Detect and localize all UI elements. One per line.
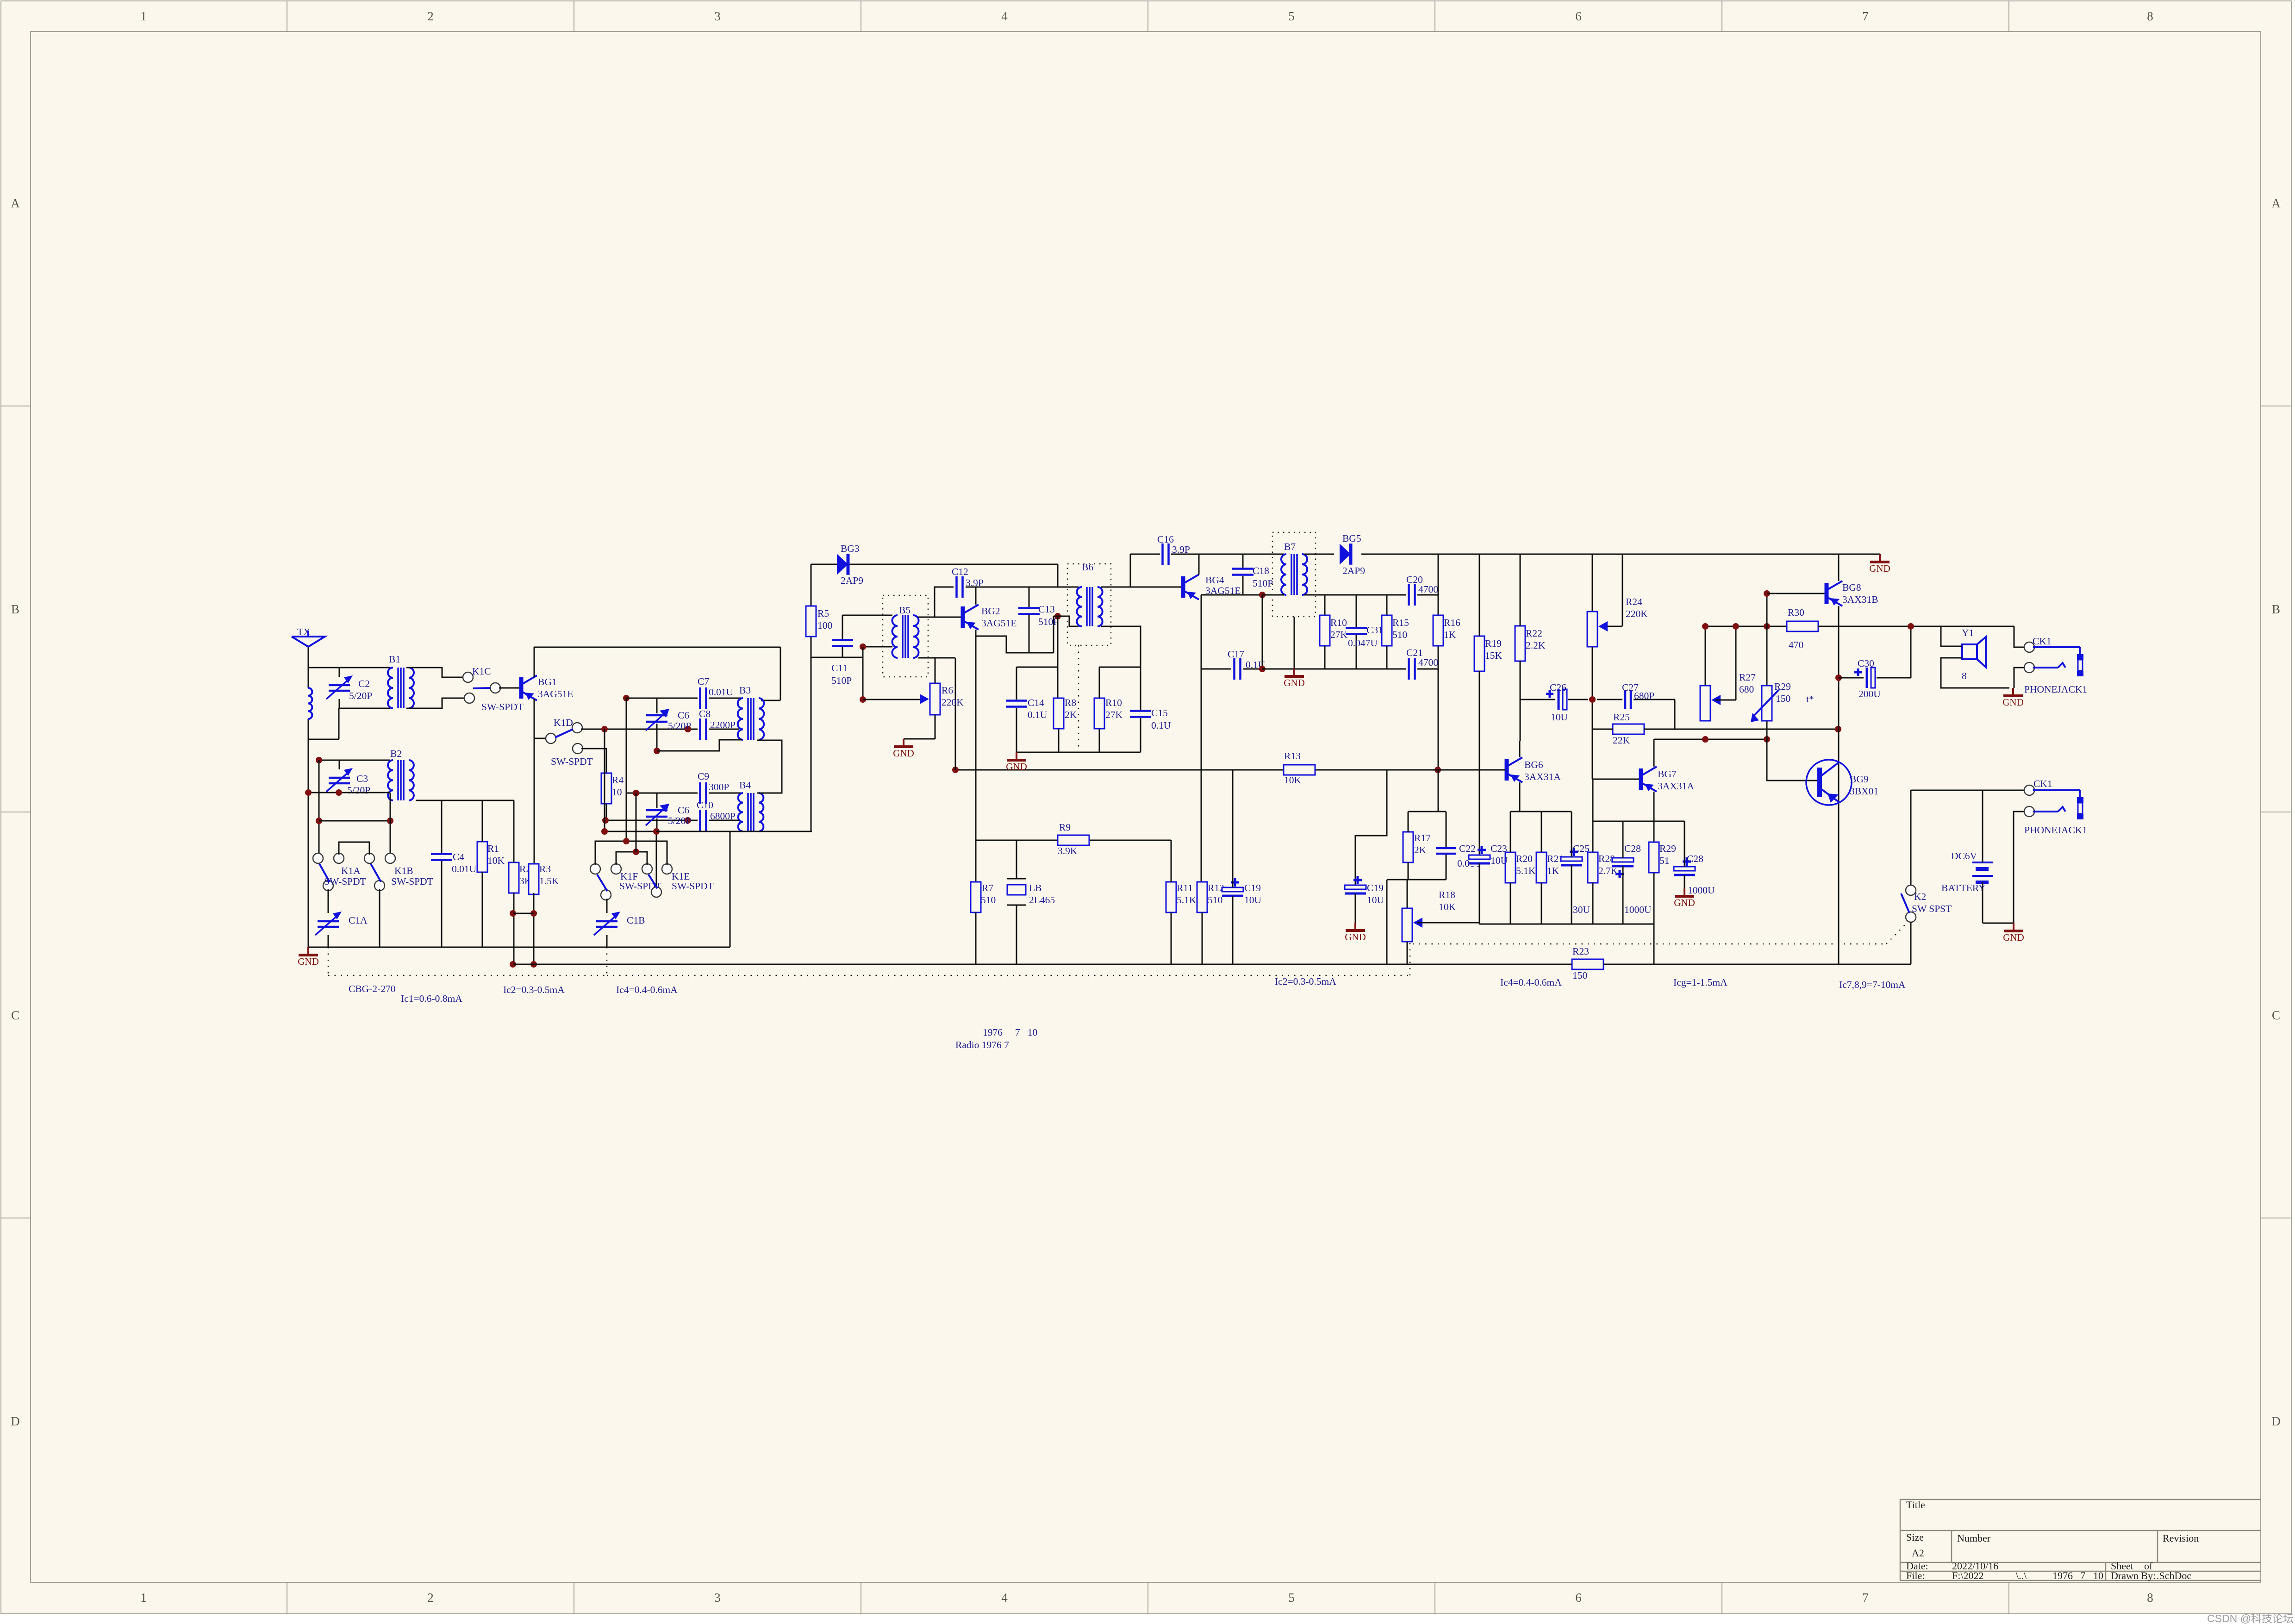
svg-text:Icg=1-1.5mA: Icg=1-1.5mA — [1673, 977, 1727, 988]
wire x1374 drop — [636, 793, 637, 852]
svg-text:BG6: BG6 — [1524, 759, 1543, 770]
capacitor C1A — [315, 889, 368, 947]
wire K2 col bottom — [1910, 922, 1912, 964]
ground C31 row — [1284, 668, 1305, 688]
wire C13 right riser — [1053, 616, 1054, 653]
svg-text:3.9P: 3.9P — [1172, 544, 1190, 555]
node y1796 — [653, 828, 660, 835]
wire BG1 emitter — [534, 699, 535, 864]
svg-text:C26: C26 — [1550, 682, 1566, 693]
node B4 row x1374 — [633, 790, 639, 796]
diode BG3 — [837, 543, 863, 586]
wire B4 top row — [626, 793, 698, 794]
wire B2 top row — [319, 760, 390, 761]
switch K2 — [1901, 885, 1952, 922]
switch K1F — [590, 864, 661, 900]
node y1575 b — [685, 726, 691, 732]
svg-text:Title: Title — [1906, 1499, 1925, 1511]
wire ground rail 2 left — [513, 964, 1180, 965]
wire R24 bottom — [1592, 647, 1593, 779]
svg-text:BG9: BG9 — [1850, 774, 1869, 785]
capacitor C4 — [431, 800, 477, 947]
resistor R1 — [477, 800, 505, 947]
svg-text:Ic2=0.3-0.5mA: Ic2=0.3-0.5mA — [503, 984, 565, 995]
svg-text:GND: GND — [893, 748, 914, 759]
svg-text:R23: R23 — [1572, 946, 1589, 957]
wire rail3 drop — [1653, 924, 1655, 964]
svg-text:PHONEJACK1: PHONEJACK1 — [2024, 684, 2087, 695]
wire R5 column — [811, 564, 812, 831]
svg-text:1000U: 1000U — [1688, 885, 1715, 896]
wire R6 gnd — [904, 738, 935, 740]
node C17 out — [1259, 666, 1266, 672]
resistor R25 — [1592, 712, 1838, 746]
capacitor C28b — [1674, 821, 1715, 896]
capacitor C1B — [594, 899, 645, 947]
svg-text:CBG-2-270: CBG-2-270 — [349, 983, 396, 994]
svg-text:1: 1 — [140, 1591, 147, 1605]
resistor R22 — [1515, 554, 1546, 741]
svg-text:R13: R13 — [1284, 750, 1301, 762]
svg-text:C: C — [11, 1008, 19, 1022]
ground speaker — [2002, 688, 2024, 708]
wire C16 to B7 — [1171, 554, 1284, 555]
node R29a bot — [1764, 736, 1770, 743]
wire B2 left bot to K1B — [390, 800, 391, 858]
wire BG6 base — [1438, 769, 1505, 771]
wire B4 sec bot out — [757, 831, 811, 832]
node BG8 base node — [1764, 590, 1770, 597]
wire B2 sec bottom out — [416, 800, 514, 801]
wire BG8 emitter col — [1838, 606, 1840, 964]
svg-text:2AP9: 2AP9 — [841, 575, 863, 586]
svg-text:C1B: C1B — [627, 915, 645, 926]
svg-text:1976: 1976 — [2052, 1570, 2073, 1581]
svg-text:C30: C30 — [1858, 658, 1874, 669]
svg-text:4700: 4700 — [1418, 584, 1438, 595]
wire B2 bottom row — [308, 793, 390, 800]
svg-text:10U: 10U — [1551, 712, 1568, 723]
svg-text:C4: C4 — [453, 851, 464, 862]
svg-text:Ic1=0.6-0.8mA: Ic1=0.6-0.8mA — [401, 993, 462, 1004]
caption date — [983, 1027, 1037, 1038]
svg-text:C6: C6 — [678, 710, 689, 721]
svg-text:C12: C12 — [952, 566, 968, 577]
wire x1306 drop — [605, 729, 656, 831]
wire BG2 base — [935, 617, 961, 618]
svg-text:3AX31B: 3AX31B — [1842, 594, 1878, 605]
wire C12 left riser — [935, 587, 954, 617]
svg-text:R20: R20 — [1516, 853, 1533, 864]
wire rail3 — [1479, 924, 1654, 925]
resistor R17 — [1403, 812, 1431, 880]
svg-text:BG7: BG7 — [1658, 768, 1677, 780]
wire B7 top right to BG5 — [1304, 554, 1334, 555]
wire C11 top row — [842, 615, 892, 616]
wire K1D low contact row — [581, 749, 606, 773]
resistor R20 — [1505, 812, 1536, 924]
wire BG6 collector — [1520, 741, 1520, 757]
svg-text:C8: C8 — [699, 708, 711, 719]
diode BG5 — [1340, 533, 1365, 576]
node R3 rail — [530, 961, 537, 968]
jack CK1a — [2024, 636, 2087, 695]
wire BG5 out — [1361, 554, 1880, 555]
node R2 tap — [510, 910, 516, 917]
wire K1EF outer bridge — [595, 841, 667, 865]
svg-text:SW-SPDT: SW-SPDT — [551, 756, 593, 767]
svg-text:GND: GND — [298, 956, 319, 967]
svg-text:220K: 220K — [1626, 608, 1648, 619]
resistor R9 — [1058, 822, 1089, 856]
svg-text:D: D — [11, 1414, 20, 1428]
node C30 right — [1908, 623, 1914, 630]
wire BG7 emitter — [1653, 792, 1655, 842]
jack CK1b — [2024, 778, 2087, 836]
svg-text:File:: File: — [1906, 1570, 1925, 1581]
antenna coil L1 — [308, 688, 312, 719]
capacitor C9 — [698, 771, 742, 804]
capacitor C16 — [1157, 534, 1190, 565]
wire CK1b lower col — [2014, 812, 2026, 923]
wire BG8 base — [1767, 593, 1825, 594]
wire battery bottom — [1983, 923, 2014, 924]
switch K1C — [463, 666, 524, 712]
resistor R29a therm — [1751, 681, 1814, 722]
capacitor C15 — [1130, 667, 1171, 752]
wire B5 left bottom — [863, 646, 892, 648]
svg-text:SW-SPDT: SW-SPDT — [481, 701, 524, 712]
wire B6 right bottom out — [1101, 626, 1141, 667]
wire rail to B3 — [761, 647, 780, 700]
wire R24 risers — [1592, 554, 1622, 626]
transformer B3 — [738, 685, 764, 740]
svg-text:0.01U: 0.01U — [709, 687, 734, 698]
svg-text:5: 5 — [1288, 1591, 1295, 1605]
resistor R29b — [1648, 842, 1676, 924]
svg-text:BG2: BG2 — [981, 606, 1000, 617]
svg-text:GND: GND — [2002, 697, 2024, 708]
svg-text:C15: C15 — [1151, 707, 1168, 718]
wire R9 row — [976, 840, 1171, 841]
switch K1D — [546, 717, 593, 767]
wire BG8 collector — [1838, 554, 1840, 581]
svg-text:1.5K: 1.5K — [539, 875, 559, 887]
wire speaker row — [1818, 626, 2014, 627]
svg-text:10U: 10U — [1367, 894, 1384, 906]
node B5 wiper — [860, 696, 866, 703]
wire BG1 collector — [534, 647, 535, 677]
svg-text:3AX31A: 3AX31A — [1524, 771, 1561, 782]
wire antenna vertical — [308, 647, 309, 947]
node C3 y1712 — [336, 789, 342, 796]
svg-text:0.047U: 0.047U — [1348, 637, 1378, 649]
svg-text:8: 8 — [1962, 670, 1967, 681]
svg-text:R1: R1 — [487, 843, 499, 854]
resistor R6 pot — [920, 658, 964, 739]
svg-text:15K: 15K — [1485, 650, 1503, 661]
svg-text:CSDN @科技论坛: CSDN @科技论坛 — [2207, 1612, 2294, 1624]
label Ic2 left — [503, 984, 565, 995]
antenna TX — [292, 626, 325, 647]
svg-text:B: B — [2272, 602, 2280, 616]
wire nodeA down — [626, 698, 627, 841]
wire B7 gnd stub — [1294, 617, 1295, 668]
svg-text:K2: K2 — [1914, 891, 1926, 902]
svg-text:D: D — [2271, 1414, 2281, 1428]
svg-text:7: 7 — [2080, 1570, 2085, 1581]
svg-text:Drawn By:: Drawn By: — [2111, 1570, 2156, 1581]
wire B1 sec bot to K1C — [406, 698, 464, 708]
svg-text:R22: R22 — [1526, 628, 1542, 639]
label Icg — [1673, 977, 1727, 988]
resistor R5 — [805, 606, 832, 637]
transistor BG4 — [1183, 575, 1241, 600]
wire C16 row — [1130, 554, 1160, 555]
svg-text:0.1U: 0.1U — [1151, 720, 1171, 731]
svg-text:R18: R18 — [1439, 889, 1455, 900]
wire R27 col — [1705, 626, 1706, 686]
svg-text:C: C — [2272, 1008, 2280, 1022]
svg-text:8: 8 — [2147, 9, 2153, 23]
wire to BG9 base — [1767, 739, 1818, 781]
transformer B6 — [1077, 587, 1102, 626]
wire to B6 left bottom — [1054, 616, 1079, 626]
capacitor C31 — [1346, 595, 1383, 669]
svg-text:C6: C6 — [678, 805, 689, 816]
svg-text:510: 510 — [1392, 629, 1407, 640]
svg-text:5.1K: 5.1K — [1516, 865, 1536, 876]
capacitor C19b — [1345, 876, 1384, 923]
resistor R15 — [1381, 595, 1409, 669]
svg-text:R27: R27 — [1739, 672, 1756, 683]
svg-text:B2: B2 — [390, 748, 402, 759]
transformer B4 — [738, 780, 764, 831]
svg-text:0.01U: 0.01U — [452, 863, 477, 874]
svg-text:Size: Size — [1906, 1531, 1924, 1543]
dotted box B5 — [883, 595, 928, 677]
capacitor C13 — [1018, 587, 1059, 653]
capacitor C19a — [1222, 770, 1262, 964]
capacitor C6b — [646, 793, 691, 831]
svg-text:4: 4 — [1001, 9, 1008, 23]
svg-text:SW-SPDT: SW-SPDT — [391, 876, 433, 887]
svg-text:C28: C28 — [1624, 843, 1641, 854]
node x843 y1773 — [387, 818, 393, 824]
wire B5 right top — [918, 617, 935, 618]
svg-text:R19: R19 — [1485, 638, 1502, 649]
label Ic789 — [1839, 979, 1906, 990]
svg-text:3: 3 — [714, 1591, 721, 1605]
capacitor C8 — [699, 708, 739, 740]
svg-text:220K: 220K — [942, 697, 964, 708]
svg-text:C25: C25 — [1573, 843, 1590, 854]
svg-text:R24: R24 — [1626, 596, 1642, 607]
wire B3 tap step — [657, 740, 742, 751]
capacitor C26 — [1520, 682, 1588, 723]
svg-text:Ic4=0.4-0.6mA: Ic4=0.4-0.6mA — [616, 984, 678, 995]
svg-text:SW-SPDT: SW-SPDT — [324, 876, 366, 887]
svg-text:Y1: Y1 — [1962, 627, 1974, 638]
wire K1A-K1B bridge — [339, 842, 369, 855]
svg-text:4700: 4700 — [1418, 657, 1438, 668]
svg-text:K1A: K1A — [341, 865, 361, 876]
ground C28b — [1674, 888, 1695, 908]
wire B4 bottom row — [605, 820, 698, 821]
resistor R19 — [1474, 554, 1503, 857]
wire emitter to K1D — [534, 738, 547, 739]
resistor R10a — [1094, 667, 1123, 752]
svg-text:C16: C16 — [1157, 534, 1174, 545]
svg-text:t*: t* — [1806, 693, 1814, 705]
wire C19b branch — [1355, 770, 1387, 885]
wire node ant to B1 top — [308, 667, 390, 668]
svg-text:10U: 10U — [1244, 894, 1262, 906]
svg-text:PHONEJACK1: PHONEJACK1 — [2024, 824, 2087, 836]
capacitor C28a — [1612, 821, 1652, 924]
svg-text:R4: R4 — [612, 775, 624, 786]
svg-text:GND: GND — [1284, 677, 1305, 688]
wire B6 top row — [1029, 587, 1079, 588]
label CBG-2-270 — [349, 983, 396, 994]
capacitor C7 — [698, 676, 742, 709]
dotted box B7 — [1272, 532, 1316, 617]
resistor R10b — [1319, 595, 1348, 669]
wire 1577 drop — [730, 831, 731, 947]
svg-text:3BX01: 3BX01 — [1850, 786, 1878, 797]
capacitor C27 — [1597, 682, 1675, 709]
wire bias bottom row — [1017, 752, 1141, 753]
wire K1C to BG1 base — [499, 687, 519, 689]
wire R18 top — [1407, 880, 1408, 908]
svg-text:CK1: CK1 — [2033, 636, 2052, 647]
wire k1 upper link — [319, 820, 390, 822]
svg-text:R15: R15 — [1392, 617, 1409, 628]
svg-text:SW SPST: SW SPST — [1912, 903, 1952, 914]
svg-text:2200P: 2200P — [710, 719, 736, 731]
wire R17 cluster bottom — [1387, 880, 1446, 964]
svg-text:R6: R6 — [942, 685, 953, 696]
svg-text:C19: C19 — [1367, 882, 1384, 893]
svg-text:4: 4 — [1001, 1591, 1008, 1605]
resistor R27 pot — [1700, 672, 1756, 721]
wire C30 right riser — [1910, 626, 1912, 678]
wire ground rail 2 right — [1180, 964, 1911, 965]
svg-text:R25: R25 — [1613, 712, 1630, 723]
dotted box B6 — [1067, 562, 1111, 645]
svg-text:10U: 10U — [1491, 855, 1508, 866]
resistor R7 — [970, 882, 996, 964]
svg-text:BG5: BG5 — [1342, 533, 1361, 544]
wire BG4 emitter column — [1201, 595, 1202, 882]
svg-text:27K: 27K — [1330, 629, 1348, 640]
svg-text:R10: R10 — [1330, 617, 1347, 628]
wire x2285 column — [1057, 616, 1059, 698]
svg-text:R9: R9 — [1059, 822, 1071, 833]
svg-text:3.9K: 3.9K — [1058, 845, 1078, 856]
resistor R2 — [508, 800, 532, 964]
ground left — [298, 947, 319, 967]
svg-text:2: 2 — [427, 9, 434, 23]
node A top — [623, 695, 630, 701]
node R2 rail — [510, 961, 516, 968]
svg-text:5/20P: 5/20P — [347, 785, 370, 796]
wire B5lb column — [862, 647, 864, 700]
svg-text:B7: B7 — [1284, 541, 1296, 552]
svg-text:1976 7 10: 1976 7 10 — [983, 1027, 1037, 1038]
capacitor C18 — [1232, 554, 1273, 595]
transformer B1 — [388, 654, 414, 708]
wire R17 cluster top — [1408, 770, 1446, 812]
svg-text:5: 5 — [1288, 9, 1295, 23]
node R27 bot — [1702, 736, 1709, 743]
capacitor C3 — [326, 760, 370, 796]
wire C14 top row — [1017, 667, 1058, 668]
ground top right — [1869, 554, 1890, 574]
wire K1EF inner bridge — [616, 852, 647, 865]
svg-text:510: 510 — [981, 894, 996, 906]
wire speaker feed — [1941, 626, 2026, 688]
node R27 top — [1702, 623, 1709, 630]
svg-text:1000U: 1000U — [1624, 904, 1652, 915]
wire ground rail 1 — [308, 947, 730, 948]
node B6 in — [1054, 613, 1061, 619]
node ant y1712 — [305, 789, 312, 796]
wire B5 sec bottom drop — [918, 658, 955, 770]
wire BG6 emitter row — [1510, 811, 1572, 812]
svg-text:Radio 1976 7: Radio 1976 7 — [955, 1039, 1009, 1050]
svg-text:2AP9: 2AP9 — [1342, 565, 1365, 576]
svg-text:1K: 1K — [1444, 629, 1456, 640]
svg-text:C14: C14 — [1028, 697, 1044, 708]
svg-text:8: 8 — [2147, 1591, 2153, 1605]
wire B4 sec out right — [757, 740, 782, 793]
svg-text:R3: R3 — [539, 863, 551, 874]
battery GB — [1941, 790, 1993, 923]
svg-text:R7: R7 — [982, 882, 993, 893]
node R29a col top — [1764, 623, 1770, 630]
svg-text:C28: C28 — [1687, 853, 1703, 864]
switch K1E — [642, 864, 714, 897]
wire BG2 emitter path — [975, 630, 977, 964]
svg-text:K1D: K1D — [554, 717, 573, 728]
dotted gang line — [328, 920, 1909, 975]
node R27 wiper top — [1733, 623, 1739, 630]
capacitor C12 — [952, 566, 984, 598]
capacitor C23 — [1469, 843, 1508, 924]
label Ic1 — [401, 993, 462, 1004]
svg-text:1: 1 — [140, 9, 147, 23]
svg-text:C18: C18 — [1253, 565, 1269, 576]
node R3 tap — [530, 910, 537, 917]
svg-text:BG8: BG8 — [1842, 582, 1861, 593]
resistor R11 — [1166, 840, 1197, 964]
wire C17 output row — [1262, 668, 1406, 670]
wire BG3 row — [811, 564, 1058, 565]
node C26 out — [1589, 696, 1596, 703]
wire R18 wiper — [1417, 922, 1479, 924]
wire BG4 collector — [1198, 554, 1200, 575]
svg-text:10: 10 — [2093, 1570, 2103, 1581]
speaker Y1 — [1962, 627, 1986, 681]
svg-text:GND: GND — [2003, 932, 2024, 943]
transistor BG9 — [1806, 760, 1878, 805]
wire R29a col — [1766, 593, 1768, 686]
node outer bridge — [623, 838, 630, 844]
svg-text:K1C: K1C — [472, 666, 491, 677]
transistor BG6 — [1507, 757, 1561, 782]
svg-text:10K: 10K — [1284, 775, 1302, 786]
